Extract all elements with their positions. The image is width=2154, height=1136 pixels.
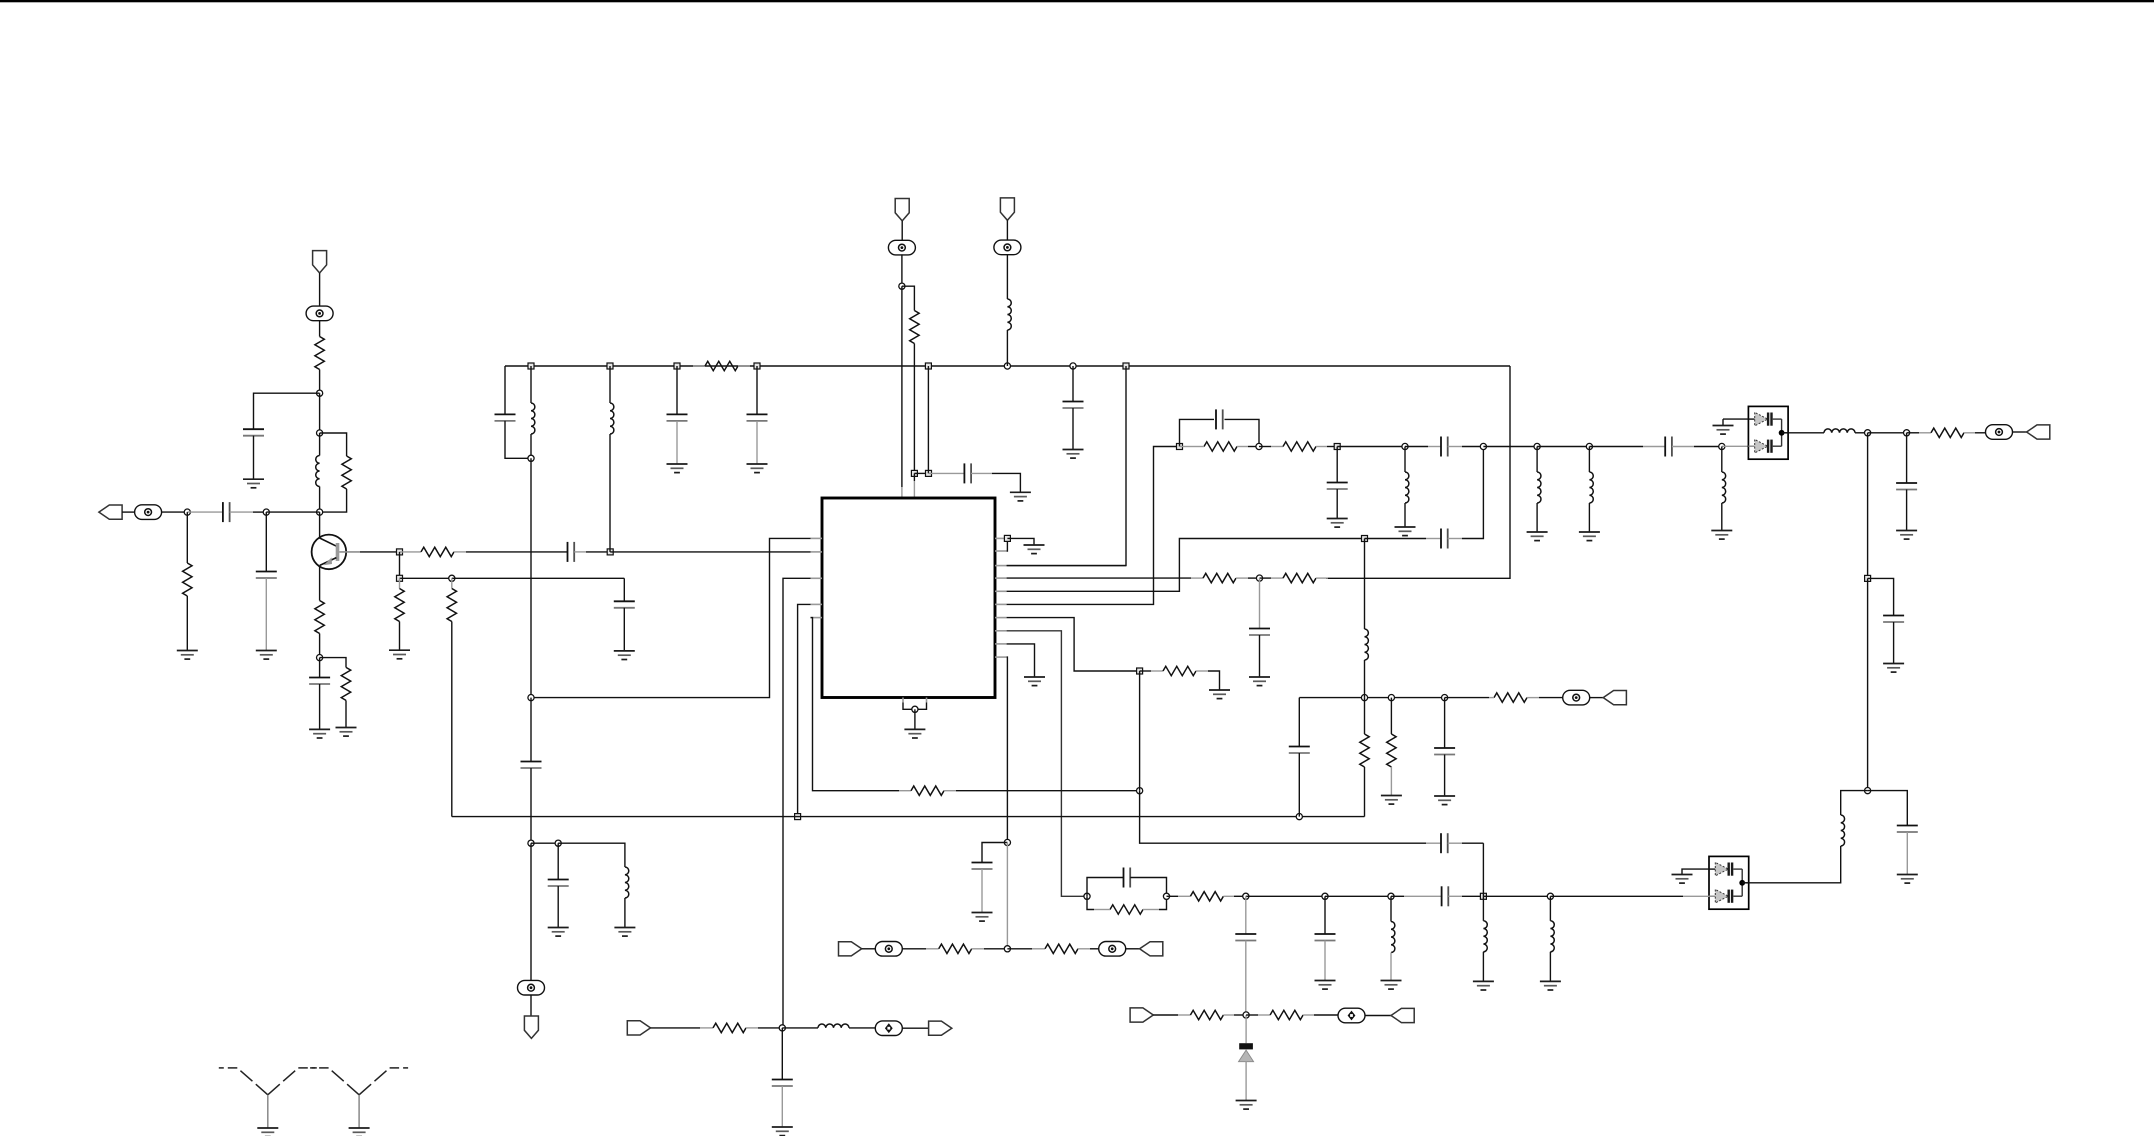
wire bbox=[1483, 895, 1550, 897]
resistor R12 bbox=[1260, 577, 1272, 579]
inductor L14 bbox=[1549, 896, 1551, 921]
ground bbox=[1527, 532, 1548, 541]
resistor R17 bbox=[1167, 895, 1179, 897]
wire pin to gnd bbox=[1007, 538, 1034, 545]
wire bbox=[1841, 791, 1868, 815]
current probe TP1 bbox=[306, 306, 333, 321]
input port P2 bbox=[99, 505, 122, 519]
node J4 bbox=[1137, 668, 1143, 674]
node J5 bbox=[1004, 839, 1010, 845]
node E1 bbox=[1004, 535, 1010, 541]
diode D3 bbox=[1245, 1015, 1247, 1043]
capacitor C11 (series to gnd) bbox=[929, 472, 965, 474]
wire left pin y578 drop bbox=[783, 578, 811, 1028]
resistor R13 bbox=[1180, 446, 1193, 448]
wire into box bbox=[1722, 445, 1749, 447]
inductor L12 bbox=[782, 1027, 818, 1029]
wire bbox=[530, 995, 532, 1017]
IC bottom ground pins bbox=[902, 698, 904, 703]
node F4 bbox=[1865, 788, 1871, 794]
ground bbox=[1473, 981, 1494, 990]
port P10 bbox=[1140, 942, 1163, 956]
capacitor C24 (series) bbox=[1426, 842, 1441, 844]
current probe TP9 bbox=[1099, 942, 1126, 957]
resistor R27 bbox=[700, 1027, 713, 1029]
wire right pin y643.9 to gnd bbox=[1007, 644, 1035, 677]
ground bbox=[1327, 519, 1348, 528]
ground bbox=[1897, 875, 1918, 884]
capacitor C25 bbox=[982, 843, 1007, 863]
port P8 bbox=[1603, 691, 1626, 705]
port P12 bbox=[627, 1021, 650, 1035]
wire long down to y816 bbox=[451, 622, 453, 817]
inductor L9 bbox=[1390, 896, 1392, 921]
wire bbox=[319, 487, 321, 513]
ground bbox=[256, 651, 277, 660]
ground bbox=[1672, 875, 1693, 884]
wire bbox=[1868, 432, 1907, 434]
capacitor C2 (series) bbox=[187, 511, 223, 513]
wire bbox=[914, 709, 916, 729]
capacitor C8 bbox=[676, 366, 678, 414]
node J7 bbox=[1361, 695, 1367, 701]
wire right pin y617 drop bbox=[1007, 618, 1140, 671]
ground bbox=[257, 1128, 278, 1136]
capacitor C3 bbox=[256, 572, 277, 579]
node L2 bbox=[555, 840, 561, 846]
port P9 bbox=[839, 942, 862, 956]
node B4 bbox=[674, 363, 680, 369]
ground bbox=[1713, 426, 1734, 435]
inductor L10 bbox=[1364, 539, 1366, 630]
wire gnd lead bbox=[1723, 418, 1748, 420]
node E6 bbox=[1334, 444, 1340, 450]
capacitor C21 (series) bbox=[1391, 895, 1404, 897]
node H4 bbox=[1322, 893, 1328, 899]
wire from IC pin y630.8 bbox=[1007, 631, 1087, 897]
inductor L1 bbox=[316, 456, 320, 487]
resistor R25 bbox=[926, 948, 939, 950]
wire bbox=[651, 1027, 701, 1029]
wire bbox=[265, 578, 267, 651]
inductor L7 bbox=[1824, 429, 1855, 433]
wire bbox=[1006, 330, 1008, 366]
inductor L6 bbox=[1721, 447, 1723, 473]
ground bbox=[336, 728, 357, 737]
node E2 bbox=[1256, 575, 1262, 581]
wire bbox=[122, 511, 135, 513]
inductor L4 bbox=[1007, 299, 1011, 330]
wire bbox=[1483, 446, 1537, 448]
current probe TP8 bbox=[875, 942, 902, 957]
ground bbox=[1381, 796, 1402, 805]
node A6 bbox=[317, 655, 323, 661]
ground bbox=[1024, 545, 1045, 554]
wire y697 line bbox=[1299, 697, 1444, 699]
ground bbox=[1249, 677, 1270, 686]
wire bbox=[1365, 1015, 1391, 1017]
ground bbox=[747, 464, 768, 473]
resistor R24 bbox=[1445, 697, 1489, 699]
wire y591 loop to balun line bbox=[1007, 539, 1365, 592]
resistor R26 bbox=[1007, 948, 1032, 950]
power port P3 bbox=[895, 199, 909, 221]
node J1 bbox=[528, 695, 534, 701]
inductor L15 bbox=[1536, 447, 1538, 473]
port P7 bbox=[1391, 1008, 1414, 1022]
wire bbox=[400, 577, 452, 579]
ground bbox=[389, 650, 410, 659]
node C2 bbox=[911, 470, 917, 476]
ground bbox=[349, 1128, 370, 1136]
capacitor C12 bbox=[1259, 578, 1261, 628]
resistor R8 bbox=[451, 578, 453, 588]
node I1 bbox=[1243, 1012, 1249, 1018]
wire down bbox=[530, 843, 532, 981]
wire bbox=[186, 596, 188, 651]
node H6 bbox=[1480, 893, 1486, 899]
node H7 bbox=[1547, 893, 1553, 899]
pin stubs left bbox=[811, 538, 823, 617]
resistor R14 bbox=[1259, 446, 1271, 448]
wire bbox=[1246, 895, 1325, 897]
capacitor C9 bbox=[756, 366, 758, 414]
inductor L5 bbox=[1404, 447, 1406, 473]
node H5 bbox=[1388, 893, 1394, 899]
power port P4 bbox=[1000, 198, 1014, 220]
ground bbox=[1315, 981, 1336, 990]
capacitor C10 bbox=[1072, 366, 1074, 402]
wire bbox=[1855, 432, 1868, 434]
node H2 bbox=[1163, 893, 1169, 899]
capacitor C17 bbox=[1906, 433, 1908, 483]
capacitor C28 bbox=[530, 698, 532, 762]
ground bbox=[1024, 677, 1045, 686]
wire y578 line bbox=[1007, 577, 1191, 579]
node A4 bbox=[184, 509, 190, 515]
resistor R10 bbox=[910, 311, 919, 344]
node L1 bbox=[528, 840, 534, 846]
ground bbox=[1434, 796, 1455, 805]
node E7 bbox=[1402, 443, 1408, 449]
port P11 bbox=[524, 1016, 538, 1038]
node F1 bbox=[1865, 430, 1871, 436]
wire output bbox=[1788, 432, 1824, 434]
node K1 bbox=[1004, 946, 1010, 952]
node A10 bbox=[449, 575, 455, 581]
ground bbox=[614, 928, 635, 937]
resistor R6 (base series) bbox=[400, 551, 422, 553]
wire bbox=[1153, 1014, 1178, 1016]
node B5 bbox=[754, 363, 760, 369]
resistor R1 bbox=[315, 337, 324, 370]
wire bbox=[1126, 948, 1140, 950]
node E11 bbox=[1586, 443, 1592, 449]
wire long riser bbox=[1867, 433, 1869, 579]
node B7 bbox=[1004, 363, 1010, 369]
wire bbox=[901, 254, 903, 286]
wire bbox=[1006, 254, 1008, 299]
capacitor C30 bbox=[781, 1028, 783, 1080]
wire bbox=[1868, 791, 1908, 826]
wire bbox=[254, 393, 320, 429]
node E8 bbox=[1480, 443, 1486, 449]
wire pin RF to rail riser bbox=[1007, 565, 1126, 567]
wire riser lower bbox=[1867, 578, 1869, 790]
wire bbox=[319, 273, 321, 307]
wire to IC pin bbox=[610, 551, 810, 553]
node J9 bbox=[1442, 695, 1448, 701]
ground bbox=[614, 651, 635, 660]
inductor L13 bbox=[1482, 896, 1484, 921]
node E3 bbox=[1362, 536, 1368, 542]
inductor L16 bbox=[1588, 447, 1590, 473]
inductor L11 bbox=[625, 867, 629, 898]
node B2 bbox=[528, 455, 534, 461]
resistor R23 bbox=[1390, 698, 1392, 734]
wire bbox=[452, 577, 625, 579]
wire left pin y604 drop bbox=[798, 604, 811, 816]
wire bbox=[186, 512, 188, 563]
wire bbox=[1139, 671, 1141, 791]
ground bbox=[904, 729, 925, 738]
wire riser y843 to y896 bbox=[1482, 843, 1484, 896]
capacitor C29 bbox=[557, 843, 559, 879]
node D1 bbox=[912, 706, 918, 712]
node B3 bbox=[607, 363, 613, 369]
capacitor C23 bbox=[1324, 896, 1326, 934]
top border bar bbox=[0, 0, 2154, 2]
transistor Q1 bbox=[312, 512, 400, 600]
node J2 bbox=[795, 814, 801, 820]
node B9 bbox=[1123, 363, 1129, 369]
current probe TP3 bbox=[888, 240, 915, 255]
resistor R22 bbox=[1364, 698, 1366, 734]
ground bbox=[1381, 981, 1402, 990]
wire right pin y657 drop bbox=[1006, 657, 1009, 842]
ground bbox=[1063, 450, 1084, 459]
ground bbox=[1209, 690, 1230, 699]
pin stubs right bbox=[995, 538, 1007, 657]
node A5 bbox=[263, 509, 269, 515]
node A9 bbox=[397, 575, 403, 581]
ground bbox=[1711, 531, 1732, 540]
wire bbox=[902, 948, 926, 950]
node B1 bbox=[528, 363, 534, 369]
resistor R21 bbox=[1140, 670, 1151, 672]
diode pair D2 bbox=[1709, 856, 1749, 909]
wire y604 riser bbox=[1007, 447, 1180, 605]
capacitor C14 (parallel loop) bbox=[1180, 419, 1215, 446]
capacitor C26 bbox=[1289, 747, 1310, 754]
capacitor C6 bbox=[623, 578, 625, 601]
wire bbox=[319, 370, 321, 394]
current probe TP6 bbox=[1338, 1008, 1365, 1023]
node C1 bbox=[899, 283, 905, 289]
node J3 bbox=[1137, 788, 1143, 794]
current probe TP2 bbox=[135, 505, 162, 520]
current probe TP11 bbox=[875, 1021, 902, 1036]
node B8 bbox=[1070, 363, 1076, 369]
resistor R9 bbox=[693, 365, 705, 367]
wire rail right corner down bbox=[1326, 366, 1510, 578]
node J8 bbox=[1388, 695, 1394, 701]
ground bbox=[1010, 492, 1031, 501]
wire output bbox=[1749, 846, 1841, 883]
capacitor C22 bbox=[1245, 896, 1247, 934]
ground bbox=[243, 479, 264, 488]
node C3 bbox=[926, 470, 932, 476]
node F3 bbox=[1865, 575, 1871, 581]
wire bbox=[1337, 446, 1405, 448]
ground bbox=[1236, 1101, 1257, 1110]
wire left pin y538 loop bbox=[531, 538, 811, 697]
wire bbox=[913, 344, 915, 474]
current probe TP5 bbox=[1986, 425, 2013, 440]
wire gnd lead bbox=[1682, 869, 1709, 874]
node J6 bbox=[1296, 814, 1302, 820]
inductor L8 bbox=[1841, 815, 1845, 846]
ground bbox=[309, 729, 330, 738]
node A1 bbox=[317, 390, 323, 396]
wire bbox=[162, 511, 188, 513]
resistor R18 bbox=[1178, 1014, 1190, 1016]
wire bbox=[902, 1027, 928, 1029]
wire bbox=[862, 948, 876, 950]
capacitor C19 bbox=[1897, 826, 1918, 833]
resistor R3 bbox=[183, 563, 192, 596]
wire bbox=[319, 393, 321, 433]
ground bbox=[772, 1127, 793, 1136]
node A2 bbox=[317, 430, 323, 436]
node E5 bbox=[1256, 443, 1262, 449]
node A3 collector bbox=[317, 509, 323, 515]
ground bbox=[1395, 527, 1416, 536]
capacitor C13 (series) bbox=[1365, 538, 1427, 540]
wire bbox=[558, 843, 625, 867]
ground bbox=[177, 651, 198, 660]
inductor L3 bbox=[609, 366, 611, 403]
ground bbox=[1883, 664, 1904, 673]
node M1 bbox=[779, 1025, 785, 1031]
wire bbox=[531, 842, 558, 844]
output port P5 bbox=[2027, 425, 2050, 439]
wire bbox=[530, 458, 532, 697]
resistor R2 bbox=[342, 456, 351, 489]
wire left pin y617 loop bbox=[811, 618, 900, 791]
wire bbox=[266, 511, 319, 513]
Y symbol 1 bbox=[219, 1068, 317, 1128]
ground bbox=[972, 913, 993, 922]
wire bbox=[253, 436, 255, 480]
resistor R19 bbox=[1246, 1014, 1258, 1016]
node A8 bbox=[607, 549, 613, 555]
wire rail bbox=[505, 365, 1510, 367]
resistor R11 bbox=[1191, 577, 1203, 579]
capacitor C7 bbox=[504, 366, 506, 414]
capacitor C31 (series) bbox=[1589, 446, 1643, 448]
inductor L2 bbox=[530, 366, 532, 403]
wire bbox=[1537, 446, 1589, 448]
port P13 bbox=[929, 1021, 952, 1035]
Y symbol 2 bbox=[310, 1068, 408, 1128]
wire bbox=[265, 512, 267, 571]
wire to IC pin RF bbox=[1007, 366, 1126, 566]
wire bbox=[2013, 431, 2027, 433]
wire bbox=[399, 552, 401, 578]
resistor R5 bbox=[320, 658, 346, 668]
current probe TP10 bbox=[518, 980, 545, 995]
resistor R4 emitter bbox=[315, 601, 324, 634]
wire bbox=[901, 221, 903, 241]
ground bbox=[548, 928, 569, 937]
capacitor C16 (series) bbox=[1405, 446, 1428, 448]
ground bbox=[1579, 532, 1600, 541]
resistor R15 bbox=[1907, 432, 1919, 434]
node A7 base bbox=[397, 549, 403, 555]
resistor R7 bbox=[399, 578, 401, 588]
current probe TP4 bbox=[994, 240, 1021, 255]
capacitor C15 bbox=[1336, 447, 1338, 483]
wire bbox=[914, 472, 928, 474]
capacitor C27 bbox=[1444, 698, 1446, 748]
wire bbox=[1325, 895, 1391, 897]
node H3 bbox=[1243, 893, 1249, 899]
node E4 bbox=[1177, 444, 1183, 450]
wire bbox=[320, 433, 347, 456]
resistor R20 bbox=[899, 790, 911, 792]
current probe TP7 bbox=[1563, 690, 1590, 705]
wire bbox=[1590, 697, 1604, 699]
port P6 bbox=[1130, 1008, 1153, 1022]
capacitor C4 bbox=[319, 658, 321, 678]
wire drop to y843 bbox=[1140, 791, 1426, 844]
op-amp U1 (RF transceiver IC body) bbox=[822, 498, 995, 698]
wire gray drop to IF bbox=[1006, 843, 1008, 949]
wire bbox=[1006, 220, 1008, 240]
node B6 bbox=[925, 363, 931, 369]
node E9 bbox=[1719, 443, 1725, 449]
wire bbox=[320, 489, 347, 512]
wire bbox=[319, 433, 321, 456]
wire bbox=[319, 634, 321, 658]
wire corner up w/ cap bbox=[1298, 698, 1300, 747]
capacitor C20 / resistor R16 parallel bbox=[1087, 878, 1124, 897]
capacitor C5 (series) bbox=[568, 542, 575, 562]
capacitor C18 bbox=[1868, 578, 1894, 615]
ground bbox=[1896, 531, 1917, 540]
ground bbox=[667, 464, 688, 473]
node E10 bbox=[1534, 443, 1540, 449]
node F2 bbox=[1904, 430, 1910, 436]
wire IC top pin2 stub bbox=[913, 473, 915, 481]
wire branch bbox=[902, 286, 915, 310]
diode pair D1 bbox=[1748, 406, 1788, 459]
wire rail drop bbox=[927, 366, 929, 473]
power port P1 bbox=[313, 251, 327, 273]
wire pin2 up bbox=[1006, 542, 1009, 552]
wire to diode box 2 bbox=[1550, 895, 1683, 897]
wire to IC top pin1 bbox=[901, 286, 903, 487]
wire y816 long line bbox=[452, 816, 1365, 818]
capacitor C1 bbox=[243, 429, 264, 436]
ground bbox=[1540, 981, 1561, 990]
node H1 bbox=[1084, 893, 1090, 899]
wire bbox=[319, 320, 321, 336]
